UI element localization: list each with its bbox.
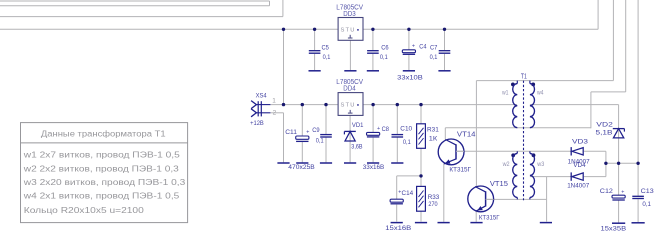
svg-text:C14: C14	[402, 190, 414, 197]
svg-text:C10: C10	[400, 125, 412, 132]
svg-text:0,1: 0,1	[403, 139, 411, 146]
svg-text:1N4007: 1N4007	[567, 183, 589, 190]
svg-text:C7: C7	[430, 44, 438, 51]
svg-text:33x10В: 33x10В	[397, 75, 423, 82]
svg-text:XS4: XS4	[256, 92, 267, 99]
svg-text:1К: 1К	[429, 135, 437, 142]
svg-text:VD3: VD3	[572, 139, 588, 146]
svg-text:0,1: 0,1	[642, 201, 651, 208]
svg-text:VD2: VD2	[596, 121, 613, 128]
svg-text:3,6В: 3,6В	[351, 143, 363, 150]
svg-text:R31: R31	[427, 127, 439, 134]
svg-text:33x16В: 33x16В	[363, 164, 384, 171]
svg-text:КТ315Г: КТ315Г	[479, 215, 500, 222]
svg-text:5,1В: 5,1В	[596, 130, 614, 137]
svg-text:1: 1	[272, 98, 276, 105]
svg-text:w3 2x20 витков, провод ПЭВ-1 0: w3 2x20 витков, провод ПЭВ-1 0,3	[23, 178, 186, 187]
svg-text:15x16В: 15x16В	[385, 225, 411, 232]
svg-text:w2 2x2 витков, провод ПЭВ-1 0,: w2 2x2 витков, провод ПЭВ-1 0,3	[23, 164, 180, 173]
svg-text:C12: C12	[600, 188, 613, 195]
svg-text:+12В: +12В	[250, 120, 264, 127]
svg-text:STU: STU	[341, 27, 356, 33]
svg-text:VT15: VT15	[490, 181, 508, 188]
svg-text:0,1: 0,1	[380, 54, 388, 61]
svg-text:КТ315Г: КТ315Г	[449, 166, 471, 173]
svg-text:w1 2x7 витков, провод ПЭВ-1 0,: w1 2x7 витков, провод ПЭВ-1 0,5	[23, 150, 181, 159]
svg-text:470x25В: 470x25В	[288, 164, 315, 171]
svg-text:0,1: 0,1	[430, 54, 438, 61]
svg-text:+: +	[306, 130, 309, 136]
svg-text:0,1: 0,1	[316, 138, 324, 145]
svg-text:C8: C8	[382, 126, 390, 133]
svg-text:Кольцо R20x10x5 u=2100: Кольцо R20x10x5 u=2100	[24, 206, 145, 215]
svg-text:+: +	[621, 189, 624, 195]
svg-text:2: 2	[273, 110, 277, 117]
svg-text:w2: w2	[502, 161, 510, 168]
svg-text:VD1: VD1	[352, 122, 364, 129]
svg-text:C13: C13	[641, 188, 654, 195]
svg-text:w1: w1	[501, 89, 509, 96]
svg-text:w4: w4	[536, 89, 544, 96]
svg-text:STU: STU	[341, 103, 356, 109]
svg-text:C4: C4	[419, 43, 426, 50]
svg-text:T1: T1	[521, 74, 527, 81]
svg-text:Данные трансформатора Т1: Данные трансформатора Т1	[41, 130, 166, 139]
svg-text:C11: C11	[285, 129, 297, 136]
svg-text:VT14: VT14	[457, 132, 476, 139]
svg-text:R33: R33	[428, 194, 440, 201]
svg-text:C5: C5	[322, 44, 330, 51]
svg-text:C9: C9	[312, 127, 320, 134]
svg-text:270: 270	[428, 201, 437, 208]
svg-text:+: +	[377, 126, 380, 132]
svg-text:VD4: VD4	[573, 162, 586, 169]
svg-text:DD3: DD3	[343, 9, 355, 18]
svg-text:w4 2x1 витков, провод ПЭВ-1 0,: w4 2x1 витков, провод ПЭВ-1 0,5	[23, 192, 180, 201]
svg-text:+: +	[412, 44, 415, 50]
svg-text:DD4: DD4	[343, 84, 355, 93]
svg-text:C6: C6	[381, 44, 389, 51]
svg-text:15x35В: 15x35В	[601, 226, 627, 233]
svg-text:w3: w3	[536, 161, 544, 168]
svg-text:0,1: 0,1	[323, 54, 331, 61]
